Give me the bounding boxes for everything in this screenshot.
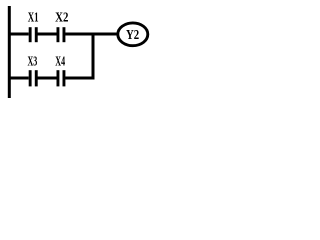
- svg-text:X2: X2: [55, 10, 68, 25]
- svg-text:Y2: Y2: [126, 28, 139, 43]
- svg-text:X1: X1: [28, 10, 39, 25]
- svg-text:X4: X4: [55, 55, 65, 70]
- svg-text:X3: X3: [28, 55, 38, 70]
